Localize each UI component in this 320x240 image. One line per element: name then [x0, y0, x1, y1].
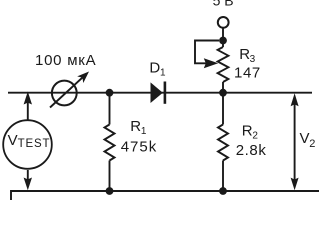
svg-text:1: 1: [141, 126, 147, 137]
wire R2 top lead: [222, 93, 224, 125]
wire VTEST top arrow shaft: [27, 103, 29, 120]
wire R2 bottom lead: [222, 161, 224, 192]
arrowhead current source: [77, 72, 89, 84]
diode D1 cathode bar: [164, 82, 167, 104]
svg-text:5 В: 5 В: [213, 0, 234, 8]
wire bottom rail with left corner leg: [11, 191, 319, 201]
svg-text:1: 1: [160, 68, 166, 79]
svg-text:D: D: [149, 59, 160, 76]
wire current source arrow shaft: [50, 78, 82, 108]
svg-text:2: 2: [252, 131, 258, 142]
svg-text:3: 3: [250, 54, 256, 65]
resistor R2 zigzag: [218, 125, 228, 161]
node junction dot R3 wiper top: [219, 37, 227, 45]
svg-text:100 мкА: 100 мкА: [35, 52, 96, 69]
arrowhead VTEST up: [24, 92, 32, 105]
node junction dot R2 R3 main rail: [219, 89, 227, 97]
arrowhead V2 up: [291, 93, 299, 106]
svg-text:V: V: [8, 132, 18, 149]
node 5V terminal circle: [218, 17, 229, 28]
node junction dot R2 bottom: [219, 187, 227, 195]
resistor R3 zigzag: [218, 47, 229, 82]
svg-text:2: 2: [309, 138, 315, 150]
wire R3 terminal to zigzag: [222, 28, 224, 47]
source I1 current source circle: [52, 81, 77, 106]
svg-text:147: 147: [234, 64, 261, 81]
arrowhead V2 down: [291, 178, 299, 191]
svg-text:TEST: TEST: [18, 138, 51, 150]
svg-text:R: R: [242, 123, 253, 140]
wire VTEST bottom arrow shaft: [27, 170, 29, 181]
svg-text:475k: 475k: [121, 139, 158, 156]
wire wiper loop of R3: [195, 41, 219, 64]
wire R1 bottom lead: [109, 161, 111, 192]
wire V2 measure arrow shaft: [294, 104, 296, 180]
wire R1 top lead: [109, 93, 111, 125]
node junction dot R1 top: [106, 89, 114, 97]
svg-text:2.8k: 2.8k: [236, 142, 267, 159]
source VTEST circle: [3, 120, 52, 169]
svg-text:V: V: [300, 130, 310, 147]
diode D1 triangle: [151, 82, 163, 103]
arrowhead R3 wiper: [204, 58, 218, 68]
resistor R1 zigzag: [105, 125, 115, 161]
wire R3 bottom to main rail: [222, 82, 224, 93]
svg-text:R: R: [130, 118, 141, 135]
arrowhead VTEST down: [24, 178, 32, 191]
svg-text:R: R: [239, 46, 250, 63]
wire main top rail: [8, 92, 312, 94]
node junction dot R1 bottom: [106, 187, 114, 195]
